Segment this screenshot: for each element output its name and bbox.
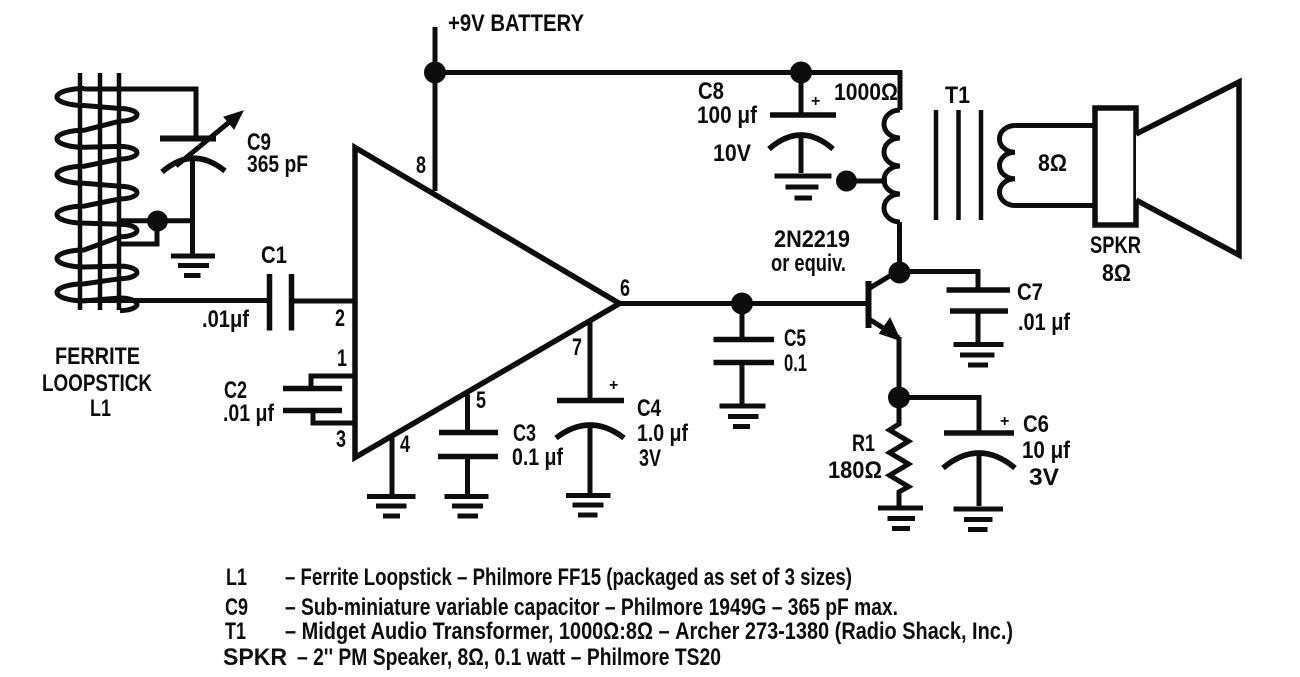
capacitor C2	[283, 376, 355, 423]
inductor L1 ferrite rod	[80, 73, 119, 310]
svg-text:C7: C7	[1017, 279, 1043, 306]
svg-text:3: 3	[336, 426, 346, 453]
svg-text:T1: T1	[225, 618, 246, 645]
svg-text:+9V BATTERY: +9V BATTERY	[448, 10, 584, 37]
ground C7	[954, 345, 1004, 366]
svg-text:1.0 μf: 1.0 μf	[637, 420, 689, 447]
wire collector	[897, 222, 902, 273]
wire coil top to C9	[84, 89, 196, 137]
svg-text:365 pF: 365 pF	[247, 151, 308, 178]
svg-text:8Ω: 8Ω	[1038, 150, 1067, 177]
ground C6	[954, 509, 1004, 530]
capacitor C6 polarized	[943, 433, 1015, 506]
svg-text:0.1: 0.1	[784, 350, 807, 377]
svg-text:10 μf: 10 μf	[1022, 437, 1071, 464]
capacitor C7	[947, 290, 1011, 342]
wire pin 7	[588, 321, 593, 401]
svg-text:1000Ω: 1000Ω	[834, 79, 898, 106]
svg-text:L1: L1	[226, 564, 247, 591]
wire emitter to C6	[899, 398, 979, 434]
capacitor C3	[438, 433, 498, 495]
svg-text:1: 1	[337, 345, 347, 372]
svg-text:– Sub-miniature variable capac: – Sub-miniature variable capacitor – Phi…	[285, 594, 898, 621]
svg-text:or equiv.: or equiv.	[771, 250, 846, 277]
svg-text:7: 7	[572, 334, 582, 361]
wire primary tap	[850, 179, 887, 184]
svg-text:– Midget Audio Transformer, 10: – Midget Audio Transformer, 1000Ω:8Ω – A…	[285, 618, 1013, 645]
svg-text:FERRITE: FERRITE	[55, 343, 140, 370]
svg-text:LOOPSTICK: LOOPSTICK	[42, 370, 153, 397]
capacitor C5	[714, 304, 775, 404]
wire +9V rail	[435, 73, 900, 111]
svg-text:L1: L1	[90, 395, 111, 422]
svg-text:3V: 3V	[1029, 464, 1059, 491]
wire pin 8	[433, 73, 438, 192]
svg-text:C8: C8	[698, 78, 724, 105]
svg-text:T1: T1	[945, 82, 970, 109]
svg-text:C5: C5	[784, 325, 806, 352]
svg-text:– Ferrite Loopstick – Philmore: – Ferrite Loopstick – Philmore FF15 (pac…	[285, 564, 852, 591]
node C5 junction	[731, 293, 753, 315]
svg-text:C6: C6	[1023, 411, 1049, 438]
svg-text:C3: C3	[513, 420, 536, 447]
ground C3	[445, 497, 489, 517]
wire pin 5	[465, 395, 470, 433]
transformer T1 secondary coil	[999, 126, 1095, 206]
svg-text:3V: 3V	[639, 445, 661, 472]
wire C1 to pin 2	[292, 299, 355, 304]
transformer T1 core	[936, 110, 981, 220]
ground under C9	[171, 256, 215, 276]
svg-text:6: 6	[620, 275, 630, 302]
svg-text:2: 2	[335, 305, 345, 332]
wire battery stub	[433, 27, 438, 73]
svg-text:8: 8	[416, 152, 426, 179]
node C8 rail junction	[790, 62, 812, 84]
wire collector to C7	[900, 272, 979, 291]
svg-text:5: 5	[476, 387, 486, 414]
svg-text:0.1 μf: 0.1 μf	[512, 444, 564, 471]
svg-text:C1: C1	[261, 242, 287, 269]
wire C8 stem	[799, 73, 804, 116]
node primary tap dot	[836, 171, 857, 192]
svg-text:8Ω: 8Ω	[1102, 260, 1131, 287]
svg-text:+: +	[811, 93, 820, 110]
svg-text:2N2219: 2N2219	[774, 226, 850, 253]
transformer T1 primary coil	[884, 110, 900, 222]
svg-text:+: +	[1000, 413, 1009, 430]
ground C4	[566, 496, 611, 516]
wire pin 4	[390, 435, 395, 494]
svg-text:C9: C9	[225, 594, 248, 621]
node emitter junction	[888, 387, 910, 409]
svg-text:R1: R1	[852, 430, 875, 457]
speaker SPKR horn	[1136, 82, 1239, 255]
resistor R1	[890, 398, 909, 506]
wire emitter	[897, 337, 902, 398]
svg-text:.01 μf: .01 μf	[223, 400, 275, 427]
svg-text:.01μf: .01μf	[202, 306, 250, 333]
wire C9 to ground	[190, 160, 195, 254]
svg-text:4: 4	[400, 431, 410, 458]
svg-text:SPKR: SPKR	[1090, 232, 1141, 259]
inductor L1 winding turns	[57, 89, 137, 311]
wire coil tap	[119, 221, 193, 244]
svg-text:SPKR: SPKR	[223, 644, 287, 671]
wire pin 6 output	[620, 301, 867, 306]
svg-text:C4: C4	[637, 395, 662, 422]
ground C8	[775, 176, 832, 198]
wire coil bottom to C1	[84, 298, 269, 303]
svg-text:+: +	[609, 377, 618, 394]
speaker SPKR driver	[1095, 108, 1136, 225]
transistor Q1 2N2219	[869, 271, 901, 341]
variable capacitor C9	[160, 111, 243, 172]
svg-text:100 μf: 100 μf	[697, 102, 758, 129]
svg-text:– 2'' PM Speaker, 8Ω, 0.1 watt: – 2'' PM Speaker, 8Ω, 0.1 watt – Philmor…	[297, 644, 721, 671]
capacitor C8 polarized	[769, 115, 836, 173]
node pin8 rail junction	[424, 62, 446, 84]
svg-text:10V: 10V	[713, 140, 751, 167]
op-amp U1 triangle	[355, 148, 620, 458]
ground R1	[878, 508, 923, 529]
node collector junction	[889, 262, 911, 284]
ground C5	[720, 406, 766, 427]
svg-text:180Ω: 180Ω	[828, 457, 882, 484]
capacitor C1	[270, 274, 292, 331]
capacitor C4 polarized	[556, 401, 624, 494]
ground pin 4	[367, 497, 416, 517]
svg-text:.01 μf: .01 μf	[1018, 309, 1071, 336]
node coil tap junction	[147, 211, 168, 232]
